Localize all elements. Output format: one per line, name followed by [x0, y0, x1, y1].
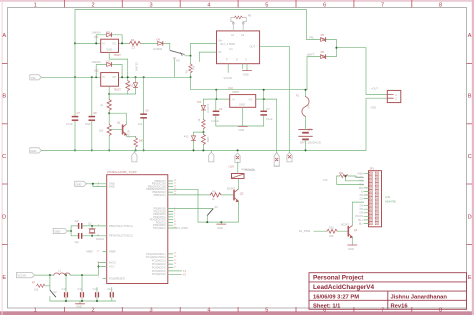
capacitor C14	[111, 288, 113, 292]
svg-text:1uF: 1uF	[138, 122, 143, 126]
svg-text:PC5(ADC5): PC5(ADC5)	[152, 269, 166, 273]
svg-text:R10: R10	[329, 226, 334, 230]
node C8 top	[91, 76, 93, 78]
svg-text:D6: D6	[360, 211, 364, 215]
svg-text:VRL: VRL	[309, 36, 315, 40]
svg-text:GND: GND	[357, 172, 363, 176]
capacitor C3	[263, 99, 265, 111]
svg-text:+12V: +12V	[228, 165, 234, 169]
transistor Q1	[123, 124, 127, 135]
svg-text:0.1uF: 0.1uF	[66, 122, 73, 126]
svg-text:PB5(SCK): PB5(SCK)	[154, 193, 166, 197]
wire rail1 IC1 out to R4	[119, 42, 130, 44]
svg-text:1: 1	[34, 307, 37, 313]
svg-text:C11: C11	[62, 287, 67, 291]
svg-text:1N4004: 1N4004	[153, 47, 163, 51]
svg-text:A: A	[468, 33, 472, 39]
svg-text:PD7(AIN1): PD7(AIN1)	[153, 226, 166, 230]
node 7805 VI tap	[215, 89, 217, 91]
wire R2 to bottom rail	[108, 136, 110, 150]
node D1 left	[95, 42, 97, 44]
node VIN/bottom rail	[74, 149, 76, 151]
wire driver gnd rail	[198, 221, 238, 223]
LCD contrast resistor R11	[337, 175, 340, 177]
svg-text:G: G	[245, 57, 247, 61]
svg-text:R7: R7	[32, 280, 36, 284]
svg-text:IC3: IC3	[229, 86, 234, 90]
svg-text:10uF: 10uF	[85, 122, 91, 126]
frame column numbers top	[34, 3, 442, 9]
node VIN/rail1	[74, 42, 76, 44]
flag VCC bottom left	[16, 273, 34, 278]
relay bottom stubs	[227, 64, 229, 73]
capacitor C6	[143, 77, 145, 114]
ground under 7805	[238, 125, 247, 127]
frame outer bottom band	[0, 311, 474, 315]
wire between R1 and R2	[108, 111, 110, 125]
svg-text:1N4733: 1N4733	[134, 62, 138, 72]
svg-text:VO: VO	[359, 179, 363, 183]
wire bottom rail	[42, 149, 366, 151]
svg-text:7812T: 7812T	[114, 87, 122, 91]
svg-text:10k: 10k	[34, 288, 39, 292]
svg-text:5V1: 5V1	[129, 83, 134, 87]
resistor R7 reset	[37, 284, 45, 287]
svg-text:22p: 22p	[75, 240, 80, 244]
svg-text:LCD: LCD	[385, 195, 390, 199]
svg-text:E: E	[361, 189, 363, 193]
frame row letters	[2, 33, 472, 281]
node R2/rail	[108, 149, 110, 151]
wire R9 to Q3	[222, 194, 234, 196]
svg-text:VO: VO	[112, 41, 116, 45]
resistor R6 vertical	[126, 81, 130, 91]
svg-text:VI: VI	[232, 98, 235, 102]
svg-text:22p: 22p	[75, 219, 80, 223]
MCU left pin labels	[109, 182, 133, 281]
wire IC2 gnd pin down	[108, 86, 110, 99]
svg-text:PC0(ADC0/SCL): PC0(ADC0/SCL)	[146, 252, 166, 256]
wire charge bus to +OUT	[336, 48, 387, 95]
MCU red pin numbers	[97, 180, 177, 279]
svg-text:R9: R9	[212, 189, 216, 193]
svg-text:Q2: Q2	[88, 221, 92, 225]
svg-text:GND: GND	[217, 226, 223, 230]
svg-text:D2: D2	[107, 60, 111, 64]
svg-text:470: 470	[323, 178, 328, 182]
ground under MCU caps	[79, 301, 81, 303]
regulator IC3 7805 box	[230, 95, 256, 108]
zener D3	[135, 77, 137, 82]
capacitor C8	[91, 77, 93, 116]
wire switch contact stub down to rail2	[173, 59, 175, 77]
svg-text:ATMEGA328P_TQFP: ATMEGA328P_TQFP	[107, 170, 137, 174]
wire +5V down to P4	[276, 99, 278, 152]
node D1 right	[121, 42, 123, 44]
svg-text:10k: 10k	[99, 129, 104, 133]
frame column numbers bottom	[34, 307, 442, 313]
svg-text:C2: C2	[219, 107, 223, 111]
wire main left vertical VIN	[74, 10, 76, 117]
flag GND at MCU	[75, 181, 87, 186]
svg-text:A1: A1	[231, 33, 235, 37]
svg-text:PB7(XTAL2/TOSC2): PB7(XTAL2/TOSC2)	[109, 234, 133, 238]
svg-text:2: 2	[92, 307, 95, 313]
svg-text:5: 5	[265, 307, 268, 313]
frame column ticks top	[64, 0, 411, 8]
capacitor C7 on VIN vertical	[72, 117, 79, 121]
MCU right pin labels	[146, 179, 166, 276]
svg-text:AREF: AREF	[109, 250, 116, 254]
svg-text:Personal Project: Personal Project	[313, 275, 364, 282]
svg-text:GND: GND	[239, 128, 245, 132]
voltage regulator IC1 box	[101, 39, 119, 52]
title block	[309, 273, 467, 310]
inductor L1	[54, 273, 70, 275]
wire D6 in from battery bus	[307, 57, 320, 90]
wire Q1 collector	[109, 113, 126, 124]
transistor Q4	[348, 225, 352, 237]
svg-text:PB6(XTAL1/TOSC1): PB6(XTAL1/TOSC1)	[109, 224, 133, 228]
svg-text:GND: GND	[239, 103, 245, 107]
frame outer top band	[0, 0, 474, 2]
wire crystal common	[67, 230, 71, 232]
svg-text:1N4004: 1N4004	[92, 30, 102, 34]
resistor R13	[201, 134, 205, 144]
switch S1 contact stub	[174, 58, 176, 60]
svg-text:BC547: BC547	[227, 186, 235, 190]
MCU left pin stubs	[103, 184, 107, 279]
frame row ticks left and right	[2, 64, 472, 245]
pin P2 below rail	[210, 150, 212, 152]
svg-text:7812T: 7812T	[114, 53, 122, 57]
svg-text:2.2: 2.2	[132, 46, 136, 50]
diode D6	[321, 55, 326, 59]
svg-text:D5: D5	[360, 207, 364, 211]
svg-text:GND: GND	[55, 230, 61, 234]
wire 7805 gnd stub	[242, 107, 244, 126]
resistor R1 vertical	[107, 100, 111, 111]
LCD connector pin squares	[369, 172, 378, 225]
battery B1	[298, 130, 312, 140]
svg-text:D: D	[2, 214, 6, 220]
svg-text:BC547: BC547	[341, 222, 349, 226]
voltage regulator IC2 box	[101, 73, 119, 87]
svg-text:D5: D5	[321, 33, 325, 37]
capacitor C10 xtal2	[79, 233, 82, 239]
wire MCU PB5 to R9	[173, 194, 210, 196]
wire Q1 base	[109, 128, 122, 130]
wire R10 to Q4	[338, 230, 348, 232]
svg-text:7V2: 7V2	[197, 100, 202, 104]
wire inductor to MCU AVCC	[70, 263, 103, 276]
svg-text:N: N	[236, 57, 238, 61]
svg-text:6: 6	[323, 3, 326, 9]
svg-text:D4: D4	[157, 37, 161, 41]
wire flag to inductor	[35, 274, 54, 276]
svg-text:4: 4	[207, 3, 210, 9]
svg-text:IN+: IN+	[219, 39, 224, 43]
svg-text:IC2: IC2	[95, 69, 100, 73]
svg-text:VO: VO	[112, 75, 116, 79]
svg-text:Q3: Q3	[240, 191, 244, 195]
svg-text:AVCC: AVCC	[109, 261, 116, 265]
svg-text:Y1: Y1	[183, 269, 187, 273]
svg-text:R11: R11	[339, 171, 344, 175]
resistor R8 coil	[235, 16, 243, 19]
resistor R4	[130, 41, 141, 45]
ground Q4	[348, 244, 357, 246]
wire switch out node	[185, 43, 217, 55]
svg-text:1: 1	[34, 3, 37, 9]
svg-text:D1: D1	[360, 197, 364, 201]
capacitor C12	[81, 275, 83, 292]
svg-text:GND: GND	[243, 72, 249, 76]
svg-text:OUT: OUT	[250, 44, 256, 48]
svg-text:7: 7	[381, 307, 384, 313]
svg-text:Q4: Q4	[354, 228, 358, 232]
svg-text:C13: C13	[93, 287, 98, 291]
svg-text:5: 5	[265, 3, 268, 9]
wire coil to supply pin	[237, 162, 239, 174]
wire rail1 into IC1	[75, 42, 101, 44]
wire flag to rail2	[42, 76, 101, 78]
svg-text:PC1(ADC1/SDA): PC1(ADC1/SDA)	[146, 255, 166, 259]
svg-text:5A: 5A	[307, 105, 311, 108]
wire switch node down to R5	[190, 56, 192, 64]
svg-text:A2: A2	[241, 33, 245, 37]
svg-text:B: B	[2, 93, 6, 99]
svg-text:R4: R4	[131, 38, 135, 42]
pin P5 +12V pin	[287, 152, 292, 162]
capacitor C11	[65, 275, 67, 292]
svg-text:7: 7	[381, 3, 384, 9]
frame column ticks bottom	[64, 307, 411, 312]
pin P4 +5V pin	[274, 152, 279, 166]
flag VIN row B	[30, 75, 42, 80]
relay K1 box	[217, 31, 260, 64]
svg-text:S_PWM: S_PWM	[178, 226, 188, 230]
wire rail2 right of IC2	[119, 76, 191, 78]
diode D4	[158, 41, 163, 45]
relay coil K1	[232, 174, 245, 179]
svg-text:P: P	[226, 57, 228, 61]
svg-text:GND: GND	[371, 106, 377, 110]
switch S1 blade	[170, 50, 185, 54]
svg-text:S2: S2	[54, 290, 58, 294]
svg-text:3: 3	[149, 3, 152, 9]
resistor R10	[327, 229, 337, 233]
svg-text:16/06/09 3:27 PM: 16/06/09 3:27 PM	[313, 294, 359, 300]
svg-text:RL_PWM: RL_PWM	[299, 229, 310, 233]
svg-text:2: 2	[92, 3, 95, 9]
svg-text:C: C	[2, 154, 6, 160]
svg-text:BL-: BL-	[359, 221, 363, 225]
node IC2 out	[121, 76, 123, 78]
node C6 top	[143, 76, 145, 78]
svg-text:0.1uF: 0.1uF	[266, 117, 273, 121]
svg-text:K1-COIL: K1-COIL	[246, 168, 257, 172]
node IC2 gnd	[108, 93, 110, 95]
svg-text:7805T: 7805T	[232, 90, 240, 94]
svg-text:0.33uF: 0.33uF	[211, 119, 219, 123]
wire D5 out to junction	[326, 40, 336, 57]
wire IC1 gnd to R6	[109, 52, 128, 80]
svg-text:K1: K1	[230, 47, 234, 51]
net label S_PWM	[173, 227, 178, 229]
relay coil resistor above box	[231, 18, 246, 31]
wire top long VIN feed to D5	[75, 10, 320, 40]
flag GND bottom rail	[30, 148, 42, 153]
svg-text:12V: 12V	[308, 127, 313, 131]
wire gnd bus under 7805	[216, 125, 264, 127]
svg-text:D1: D1	[107, 30, 111, 34]
wire Q3 emitter to gnd	[237, 201, 239, 222]
node Z1 top	[135, 76, 137, 78]
pin P3 coil supply pin	[235, 153, 240, 163]
resistor R5 vertical	[189, 64, 192, 73]
wire reset pullup branch	[49, 275, 51, 286]
svg-text:D0: D0	[360, 193, 364, 197]
capacitor C13	[96, 288, 98, 292]
wire MCU PD0 to switch S3	[173, 208, 213, 210]
svg-text:GND: GND	[348, 247, 354, 251]
svg-text:R8: R8	[248, 13, 252, 17]
LCD pin labels	[355, 172, 364, 226]
svg-text:100: 100	[139, 139, 144, 143]
svg-text:PC6(/RESET): PC6(/RESET)	[109, 276, 125, 280]
node C2 top	[215, 98, 217, 100]
svg-text:xBATT: xBATT	[307, 53, 315, 57]
svg-text:8: 8	[439, 307, 442, 313]
wire R4 to D4	[141, 42, 158, 44]
wire R1 chain stub	[108, 94, 110, 100]
svg-text:Q1: Q1	[117, 121, 121, 125]
svg-text:8: 8	[439, 3, 442, 9]
svg-text:VIN: VIN	[31, 76, 35, 80]
svg-text:Jishnu Janardhanan: Jishnu Janardhanan	[391, 294, 448, 300]
crystal Q2 16MHz	[91, 225, 93, 227]
wire Q1 emitter to R3	[126, 135, 135, 137]
wire relay IN-	[199, 52, 216, 61]
node VIN/rail2	[74, 76, 76, 78]
switch S3	[207, 209, 213, 216]
svg-text:4: 4	[207, 307, 210, 313]
svg-text:C: C	[468, 154, 472, 160]
pin P1 below rail	[133, 150, 135, 152]
resistor R2 vertical	[107, 125, 111, 136]
svg-text:16MHz: 16MHz	[96, 237, 105, 241]
wire 7805 VO out	[256, 98, 277, 100]
svg-text:R5: R5	[185, 69, 189, 73]
svg-text:AREF: AREF	[86, 250, 93, 254]
wire Q4 emitter to gnd	[351, 237, 353, 245]
frame outer right band	[472, 0, 474, 315]
node R6 mid	[127, 76, 129, 78]
transistor Q3	[234, 189, 239, 202]
node junction D5/D6	[335, 47, 337, 49]
MCU right pin stubs	[168, 181, 182, 274]
svg-text:LeadAcidChargerV4: LeadAcidChargerV4	[313, 284, 375, 291]
node D2 left	[95, 76, 97, 78]
ground coil driver	[220, 222, 222, 224]
resistor R3 vertical	[135, 136, 137, 138]
svg-text:VO: VO	[249, 98, 253, 102]
svg-text:D4: D4	[360, 204, 364, 208]
wire relay OUT to P5	[260, 46, 290, 152]
MCU IC4 ATMEGA328P box	[107, 175, 168, 284]
svg-text:C12: C12	[78, 287, 83, 291]
capacitor C9 xtal1	[79, 223, 82, 229]
svg-text:RLY_F 5000: RLY_F 5000	[221, 42, 236, 46]
wire Q4 collector to LCD led pin	[352, 202, 364, 225]
frame outer left line	[1, 0, 4, 315]
svg-text:S3: S3	[215, 205, 219, 209]
svg-text:100k: 100k	[206, 137, 210, 143]
svg-text:VI: VI	[102, 75, 105, 79]
svg-text:Rev16: Rev16	[391, 303, 409, 309]
svg-text:BATT_LEADACID: BATT_LEADACID	[300, 141, 321, 145]
svg-text:VI: VI	[102, 41, 105, 45]
svg-text:C3: C3	[266, 107, 270, 111]
diode D2 symbol	[107, 63, 112, 67]
svg-text:10k: 10k	[192, 65, 196, 70]
svg-text:VCCIN: VCCIN	[355, 175, 363, 179]
switch S2 reset	[49, 286, 51, 290]
svg-text:BC547: BC547	[127, 130, 131, 138]
wire down to 7805 VI	[216, 90, 229, 99]
wire R5 to rail2	[190, 73, 192, 77]
wire +OUT gnd return	[366, 98, 387, 150]
title block text	[313, 275, 375, 292]
svg-text:B: B	[468, 93, 472, 99]
svg-text:GND: GND	[31, 149, 37, 153]
svg-text:RW: RW	[359, 186, 364, 190]
LCD pin stubs	[364, 174, 369, 224]
svg-text:VCCIN: VCCIN	[224, 76, 232, 80]
svg-text:GND: GND	[76, 305, 82, 309]
svg-text:C6: C6	[145, 109, 149, 113]
svg-text:3: 3	[149, 307, 152, 313]
diode D5	[321, 38, 326, 42]
resistor R9 base	[210, 193, 221, 197]
svg-text:GND: GND	[106, 48, 112, 52]
zener D7	[202, 99, 204, 105]
wire flag to GND pins	[86, 183, 103, 185]
svg-text:+OUT: +OUT	[371, 86, 378, 90]
svg-text:C8: C8	[93, 111, 97, 115]
svg-text:VCCIN: VCCIN	[355, 214, 363, 218]
wire VI extension left to zener branch	[203, 98, 216, 100]
diode D2 bypass loop over IC2	[96, 65, 106, 78]
node divider mid	[202, 131, 204, 133]
resistor R12	[202, 120, 206, 129]
wire R6 bottom	[127, 91, 129, 94]
svg-text:1N4737: 1N4737	[206, 104, 210, 114]
svg-text:D: D	[468, 214, 472, 220]
wire D4 to switch	[164, 43, 170, 50]
svg-text:C7: C7	[77, 111, 81, 115]
connector JP2 +OUT	[387, 90, 401, 102]
node Q1 collector tap	[108, 112, 110, 114]
svg-text:E: E	[2, 275, 6, 281]
svg-text:PC3(ADC3): PC3(ADC3)	[152, 262, 166, 266]
svg-text:JP1: JP1	[370, 166, 375, 170]
wire Q3 collector to coil	[237, 179, 239, 189]
node C3 top	[263, 98, 265, 100]
svg-text:PC2(ADC2): PC2(ADC2)	[152, 259, 166, 263]
wire zener bottom bus	[109, 93, 135, 95]
